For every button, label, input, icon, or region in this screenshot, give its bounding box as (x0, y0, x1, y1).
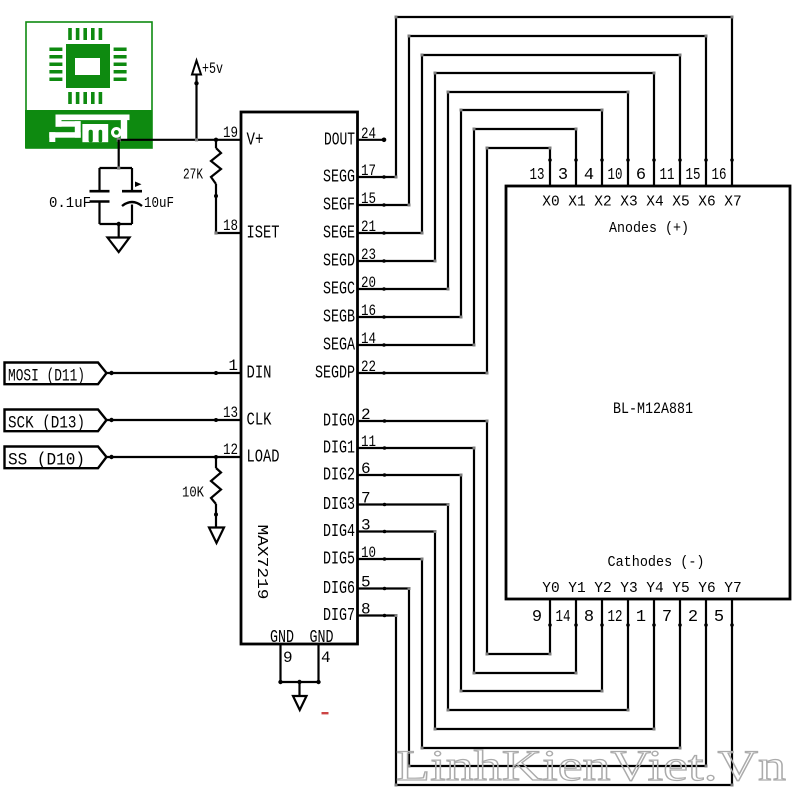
pin 13 X0 label (530, 166, 560, 211)
LED matrix name (613, 400, 693, 418)
pin 22 SEGDP label (315, 358, 376, 384)
pin 9 GND label (270, 628, 294, 667)
pin 11 X5 label (660, 166, 690, 211)
svg-text:DIG2: DIG2 (323, 466, 355, 486)
wire logo node down to capacitors (118, 140, 120, 168)
svg-text:X5: X5 (672, 195, 689, 211)
svg-text:Y2: Y2 (594, 581, 611, 597)
wire capacitor top rail (100, 166, 133, 169)
svg-text:GND: GND (310, 628, 334, 648)
svg-text:+5v: +5v (202, 60, 223, 78)
svg-text:SS (D10): SS (D10) (8, 451, 85, 471)
wire DIG5 to Y5 (358, 557, 682, 749)
pin 23 SEGD label (323, 246, 376, 272)
pin 16 X7 label (712, 166, 742, 211)
watermark LinhKienViet.Vn (396, 743, 786, 790)
wire SEGA to X1 (358, 128, 578, 347)
svg-text:SEGC: SEGC (323, 280, 355, 300)
svg-text:SEGF: SEGF (323, 196, 355, 216)
pin 15 SEGF label (323, 190, 376, 216)
svg-text:MOSI (D11): MOSI (D11) (8, 367, 85, 387)
pin 19 V+ label (223, 124, 264, 151)
svg-text:SEGDP: SEGDP (315, 364, 355, 384)
pin 6 DIG2 label (323, 460, 371, 486)
pin 3 X1 label (558, 166, 586, 211)
svg-text:19: 19 (223, 124, 238, 142)
svg-text:DIG6: DIG6 (323, 579, 355, 599)
connector SCK (D13) (5, 410, 107, 434)
svg-text:SEGD: SEGD (323, 252, 355, 272)
pin 1 Y4 label (636, 581, 664, 627)
pin 8 Y2 label (584, 581, 612, 627)
ground below 10K (209, 528, 224, 544)
svg-text:9: 9 (532, 608, 542, 627)
svg-text:14: 14 (556, 608, 571, 627)
pin 14 SEGA label (323, 330, 376, 356)
SMD logo green band (25, 110, 152, 148)
svg-text:SEGG: SEGG (323, 168, 355, 188)
svg-text:CLK: CLK (247, 411, 272, 431)
svg-text:DIG1: DIG1 (323, 439, 355, 459)
svg-text:13: 13 (530, 166, 545, 185)
svg-text:SEGE: SEGE (323, 224, 355, 244)
wire DIG0 to Y0 (358, 419, 552, 655)
ground below IC (293, 696, 307, 710)
svg-text:Y1: Y1 (568, 581, 585, 597)
wire capacitor bottom rail (100, 222, 133, 237)
svg-text:1: 1 (636, 608, 646, 627)
ground below capacitors (108, 238, 130, 253)
svg-text:11: 11 (660, 166, 675, 185)
wire SEGF to X6 (358, 35, 708, 207)
pin 10 X3 label (608, 166, 638, 211)
pin 7 DIG3 label (323, 490, 371, 516)
LED matrix Cathodes label (608, 554, 705, 571)
svg-text:4: 4 (321, 649, 331, 667)
svg-text:5: 5 (714, 608, 724, 627)
stray red mark (322, 712, 329, 714)
SMD logo chip icon (49, 28, 126, 104)
svg-text:X7: X7 (724, 195, 741, 211)
wire DOUT stub (358, 138, 387, 143)
pin 4 X2 label (584, 166, 612, 211)
pin 18 ISET label (223, 217, 280, 244)
resistor R2 10K (182, 457, 221, 527)
pin 9 Y0 label (532, 581, 560, 627)
svg-text:DIG0: DIG0 (323, 412, 355, 432)
wire SEGE to X5 (358, 54, 682, 235)
svg-text:Y3: Y3 (620, 581, 637, 597)
wire SEGB to X2 (358, 109, 604, 319)
pin 21 SEGE label (323, 218, 376, 244)
svg-text:12: 12 (608, 608, 623, 627)
IC U1 MAX7219 body (241, 112, 358, 644)
svg-text:ISET: ISET (247, 224, 280, 244)
svg-text:MAX7219: MAX7219 (253, 525, 270, 600)
svg-text:27K: 27K (183, 167, 203, 184)
LED matrix DS1 BL-M12A881 body (506, 186, 790, 599)
SMD logo Smd wordmark (49, 115, 129, 143)
pin 8 DIG7 label (323, 601, 371, 627)
svg-text:GND: GND (270, 628, 294, 648)
svg-text:0.1uF: 0.1uF (49, 195, 91, 212)
svg-text:10K: 10K (182, 485, 204, 502)
pin 10 DIG5 label (323, 544, 376, 570)
resistor R1 27K (183, 140, 221, 233)
pin 5 DIG6 label (323, 574, 371, 600)
pin 13 CLK label (223, 404, 272, 431)
wire DIG7 to Y7 (358, 599, 734, 787)
svg-text:X3: X3 (620, 195, 637, 211)
pin 12 Y3 label (608, 581, 638, 627)
connector SS (D10) (5, 447, 107, 471)
svg-text:2: 2 (688, 608, 698, 627)
connector MOSI (D11) (5, 363, 107, 387)
svg-text:18: 18 (223, 217, 238, 235)
svg-text:Anodes (+): Anodes (+) (609, 220, 689, 237)
pin 15 X6 label (686, 166, 716, 211)
wire SCK to IC (107, 418, 242, 422)
pin 20 SEGC label (323, 274, 376, 300)
wire SEGDP to X0 (358, 147, 552, 375)
svg-text:7: 7 (662, 608, 672, 627)
svg-text:6: 6 (636, 166, 646, 185)
svg-text:SCK (D13): SCK (D13) (8, 414, 85, 434)
wire SEGC to X3 (358, 91, 630, 291)
pin 11 DIG1 label (323, 433, 376, 459)
svg-text:X2: X2 (594, 195, 611, 211)
LED matrix Anodes label (609, 220, 689, 237)
wire GND pin 9 stub (279, 644, 281, 682)
svg-text:X1: X1 (568, 195, 585, 211)
svg-text:DIG5: DIG5 (323, 550, 355, 570)
wire +5V rail to V+ pin (117, 138, 241, 142)
SMD logo frame (26, 22, 152, 148)
pin 3 DIG4 label (323, 517, 371, 543)
svg-text:X4: X4 (646, 195, 663, 211)
pin 7 Y5 label (662, 581, 690, 627)
wire DIG1 to Y1 (358, 446, 578, 674)
svg-text:BL-M12A881: BL-M12A881 (613, 400, 693, 418)
svg-text:DIN: DIN (247, 364, 272, 384)
svg-text:DIG7: DIG7 (323, 606, 355, 626)
capacitor C2 10uF polarized (122, 168, 174, 224)
pin 5 Y7 label (714, 581, 742, 627)
svg-text:Y6: Y6 (698, 581, 715, 597)
wire SS to IC (107, 455, 242, 459)
wire DIG3 to Y3 (358, 503, 630, 712)
wire DIG2 to Y2 (358, 473, 604, 692)
wire DIG6 to Y6 (358, 587, 708, 768)
svg-text:LinhKienViet.Vn: LinhKienViet.Vn (396, 743, 786, 790)
svg-text:X0: X0 (542, 195, 559, 211)
svg-text:Y4: Y4 (646, 581, 663, 597)
svg-text:DIG4: DIG4 (323, 522, 355, 542)
wire GND join (278, 680, 320, 696)
pin 24 DOUT label (324, 125, 376, 151)
svg-text:10: 10 (608, 166, 623, 185)
wire DIG4 to Y4 (358, 530, 656, 731)
wire R1 to ISET pin (214, 231, 241, 234)
svg-text:SEGA: SEGA (323, 336, 355, 356)
svg-text:8: 8 (584, 608, 594, 627)
pin 14 Y1 label (556, 581, 586, 627)
svg-text:15: 15 (686, 166, 701, 185)
svg-text:Cathodes (-): Cathodes (-) (608, 554, 705, 571)
svg-text:3: 3 (558, 166, 568, 185)
pin 1 DIN label (228, 357, 271, 384)
svg-text:16: 16 (712, 166, 727, 185)
svg-text:SEGB: SEGB (323, 308, 355, 328)
svg-text:Y0: Y0 (542, 581, 559, 597)
svg-text:DIG3: DIG3 (323, 495, 355, 515)
capacitor C1 0.1uF (49, 168, 110, 224)
wire SEGG to X7 (358, 16, 734, 187)
pin 12 LOAD label (223, 441, 280, 468)
svg-text:Y7: Y7 (724, 581, 741, 597)
svg-text:Y5: Y5 (672, 581, 689, 597)
pin 6 X4 label (636, 166, 664, 211)
IC U1 label MAX7219 (253, 525, 270, 600)
pin 2 DIG0 label (323, 406, 371, 432)
svg-text:4: 4 (584, 166, 594, 185)
pin 17 SEGG label (323, 162, 376, 188)
svg-text:LOAD: LOAD (247, 448, 280, 468)
svg-text:DOUT: DOUT (324, 131, 355, 151)
svg-text:V+: V+ (247, 131, 264, 151)
svg-text:X6: X6 (698, 195, 715, 211)
wire SEGD to X4 (358, 72, 656, 263)
wire GND pin 4 stub (317, 644, 319, 682)
pin 4 GND label (310, 628, 334, 667)
+5V power symbol (192, 60, 223, 140)
pin 2 Y6 label (688, 581, 716, 627)
wire MOSI to IC (107, 371, 242, 375)
pin 16 SEGB label (323, 302, 376, 328)
svg-text:10uF: 10uF (144, 195, 174, 212)
svg-text:9: 9 (283, 649, 293, 667)
